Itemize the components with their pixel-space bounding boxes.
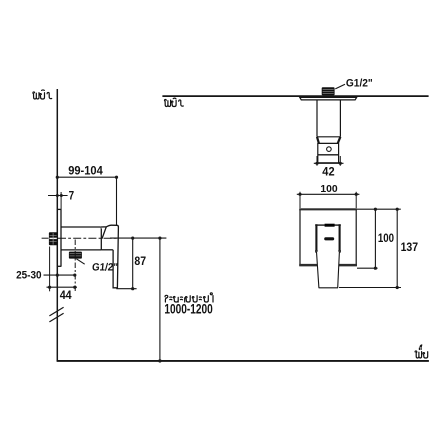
svg-text:44: 44 xyxy=(60,290,73,302)
label Thai "wall" left xyxy=(33,90,52,99)
node front-view square plate xyxy=(299,209,357,266)
svg-text:137: 137 xyxy=(401,241,418,254)
wire horizontal centerline (dash-dot) of valve xyxy=(42,237,49,239)
svg-text:87: 87 xyxy=(134,256,146,269)
no nu xyxy=(192,296,197,302)
label Thai "floor" xyxy=(415,345,428,358)
node side-view escutcheon plate xyxy=(58,209,62,266)
pho phan xyxy=(415,351,422,358)
svg-text:1000-1200: 1000-1200 xyxy=(164,301,213,317)
dimension 7 (plate thickness) xyxy=(48,192,68,209)
sara uee (two ticks) xyxy=(419,348,421,350)
dimension 87 with reference line to recommended height line xyxy=(110,237,166,291)
node plan-view handle xyxy=(318,143,339,162)
wire leader line G1/2 plan label xyxy=(335,84,345,89)
wire wall break slash 2 xyxy=(49,313,63,322)
no nu xyxy=(40,93,45,99)
sara am (circle + stem) xyxy=(210,293,213,302)
ro rua xyxy=(165,295,168,302)
mai tho above xyxy=(420,345,422,347)
node plan-view body edges xyxy=(317,100,340,137)
mai han akat xyxy=(42,89,45,91)
node front-view handle escutcheon (thick square, open bottom) xyxy=(315,224,341,252)
wire recommended-height vertical line 1000-1200 xyxy=(159,238,161,361)
dimension 99-104 xyxy=(56,176,118,226)
svg-text:42: 42 xyxy=(322,166,334,178)
node side-view handle xyxy=(101,225,119,288)
no nu xyxy=(204,296,209,302)
node plan-view flange plate xyxy=(300,97,357,100)
wire vertical centerline of outlet (dashed) xyxy=(74,240,76,292)
dimension 44 xyxy=(47,247,78,292)
no nu xyxy=(423,352,428,358)
dimension 100 right xyxy=(357,208,401,270)
dimension 100 top xyxy=(297,192,360,208)
pho phung xyxy=(33,92,39,99)
sara a xyxy=(180,297,182,300)
node front-view lever (covers plate bottom edge) xyxy=(317,252,340,288)
node side-view valve body xyxy=(61,227,113,250)
component ceiling/wall G1/2 connector (plan view) xyxy=(322,87,335,95)
dimension 25-30 xyxy=(44,274,77,277)
sara a xyxy=(170,297,172,300)
node front-view handle slot xyxy=(324,237,334,240)
wire wall break slash 1 xyxy=(49,307,63,316)
label Thai "recommended distance" xyxy=(165,293,213,302)
wire left wall vertical line xyxy=(56,89,58,361)
svg-text:7: 7 xyxy=(69,190,74,203)
yo yak xyxy=(173,297,178,302)
svg-text:G1/2": G1/2" xyxy=(346,77,373,90)
node plan-view body xyxy=(317,100,340,137)
wire floor line xyxy=(57,360,429,362)
ngo ngu xyxy=(47,92,52,98)
sara a xyxy=(199,297,201,300)
svg-text:100: 100 xyxy=(320,184,337,195)
label Thai "wall" right (plan view) xyxy=(165,98,184,106)
svg-text:25-30: 25-30 xyxy=(16,269,42,282)
wire leader line for G1/2 side label xyxy=(76,259,84,264)
component outlet thread block G1/2 (side view) xyxy=(69,252,82,259)
svg-text:G1/2": G1/2" xyxy=(91,262,118,273)
sara ae (double stem + u) xyxy=(185,296,191,302)
dimension 137 xyxy=(339,208,401,290)
dimension 42 xyxy=(314,156,344,166)
node plan-view handle neck trapezoid xyxy=(317,137,340,144)
svg-text:99-104: 99-104 xyxy=(68,165,103,177)
svg-text:100: 100 xyxy=(378,232,394,245)
component inlet thread block (behind wall, side view) xyxy=(49,232,57,245)
wire top-right wall line (plan view wall) xyxy=(162,95,428,97)
